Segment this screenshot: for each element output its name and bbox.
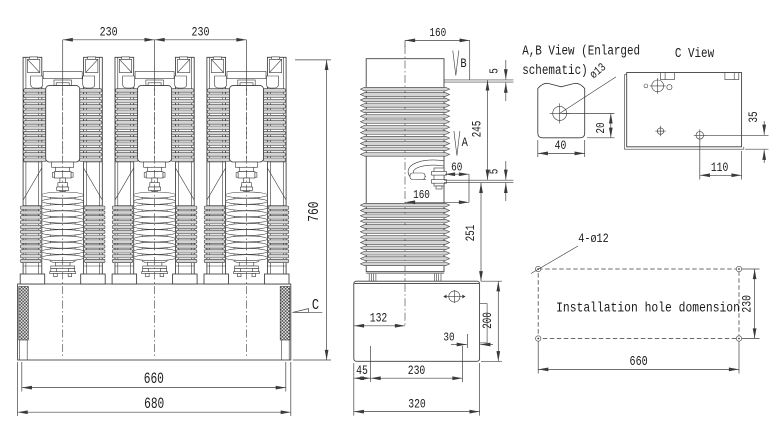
svg-text:660: 660 xyxy=(630,354,648,370)
view arrow B xyxy=(453,51,456,76)
dimension 160 top xyxy=(405,39,470,41)
left foot bolts xyxy=(368,274,370,282)
dimension 230 pole spacing right xyxy=(155,39,247,41)
base left hatched gusset xyxy=(19,287,29,341)
dimension 660 install xyxy=(537,341,539,374)
svg-text:60: 60 xyxy=(451,161,462,174)
dimension 680 base width xyxy=(17,362,19,416)
pole 1 centerline xyxy=(62,83,64,357)
dimension 760 overall height xyxy=(295,59,331,61)
base right hatched gusset xyxy=(280,287,290,341)
upper terminal plate xyxy=(444,79,513,81)
dimension 40 xyxy=(537,140,539,157)
section C callout xyxy=(292,311,322,313)
svg-text:4-ø12: 4-ø12 xyxy=(578,232,608,246)
C view plate outline xyxy=(627,73,742,147)
svg-text:230: 230 xyxy=(740,295,755,313)
svg-text:C: C xyxy=(312,298,319,315)
box centerline continuation xyxy=(404,284,406,326)
svg-text:760: 760 xyxy=(306,201,323,221)
C view hole H1a xyxy=(644,84,648,88)
mechanism box side view xyxy=(354,281,480,361)
dimension 45 and 230 bottom xyxy=(370,346,372,382)
pole 1 assembly xyxy=(20,57,105,284)
pole 2 assembly xyxy=(112,57,197,284)
dimension 20 xyxy=(562,112,615,114)
dimension 200 xyxy=(481,280,502,282)
mounting hole BL xyxy=(536,336,541,341)
lifting hole target symbol xyxy=(449,291,460,302)
right foot bolts xyxy=(433,274,435,282)
svg-text:320: 320 xyxy=(408,398,426,411)
svg-text:20: 20 xyxy=(595,122,608,133)
C view hole H2 xyxy=(657,128,663,134)
dimension 60 xyxy=(445,173,469,175)
C view top notch right xyxy=(725,73,739,80)
installation hole layout dashed outline xyxy=(538,269,739,339)
dimension 160 lower xyxy=(405,201,469,203)
svg-text:160: 160 xyxy=(429,27,446,40)
C view hole H1b xyxy=(667,85,672,90)
dimension 5 upper plate xyxy=(505,60,507,79)
svg-text:132: 132 xyxy=(370,312,388,325)
side view pole column xyxy=(366,59,444,272)
lower hook terminal xyxy=(408,160,444,179)
pad hole xyxy=(553,106,567,120)
dimension 5 lower plate xyxy=(505,161,507,180)
C view hole H3 xyxy=(696,132,704,140)
pole 3 centerline xyxy=(246,83,248,357)
svg-text:160: 160 xyxy=(413,189,430,202)
dimension 251 xyxy=(480,183,482,281)
dimension 35 xyxy=(704,134,769,136)
svg-text:680: 680 xyxy=(144,396,164,413)
svg-text:schematic): schematic) xyxy=(522,63,587,79)
svg-text:30: 30 xyxy=(443,332,454,345)
lower terminal plate xyxy=(444,179,513,181)
hole callout 4-o12 xyxy=(531,246,578,274)
dimension 30 xyxy=(467,334,469,348)
base left foot channel xyxy=(19,340,21,360)
svg-text:110: 110 xyxy=(711,162,729,175)
mounting hole TR xyxy=(736,266,741,271)
base right foot channel xyxy=(281,340,283,360)
hole leader and label xyxy=(560,77,616,114)
dimension 132 xyxy=(354,325,405,327)
C view hole H1 xyxy=(652,80,664,92)
dimension 320 xyxy=(353,363,355,416)
dimension 245 xyxy=(487,80,489,179)
box side tab xyxy=(480,304,488,343)
svg-text:35: 35 xyxy=(748,111,762,122)
svg-text:5: 5 xyxy=(489,169,502,175)
svg-text:A: A xyxy=(462,135,469,150)
dimension 230 pole spacing left xyxy=(63,39,155,41)
svg-text:40: 40 xyxy=(555,140,567,153)
svg-text:660: 660 xyxy=(144,372,164,389)
view arrow A xyxy=(454,131,457,156)
svg-text:230: 230 xyxy=(408,365,426,378)
dimension 660 base holes xyxy=(21,362,23,392)
svg-text:Installation hole domension: Installation hole domension xyxy=(556,299,740,316)
pole 2 centerline xyxy=(154,83,156,357)
svg-text:5: 5 xyxy=(489,68,502,74)
dimension 230 install xyxy=(742,268,760,270)
A,B terminal pad plate xyxy=(538,83,585,137)
dimension 110 xyxy=(699,139,701,180)
lower rib bellows xyxy=(360,203,449,207)
pole 3 assembly xyxy=(204,57,289,284)
svg-text:C View: C View xyxy=(675,46,715,62)
C view top notch left xyxy=(661,73,675,80)
mounting hole TL xyxy=(536,266,541,271)
upper rib bellows xyxy=(360,87,449,91)
svg-text:45: 45 xyxy=(356,365,368,378)
svg-text:B: B xyxy=(460,56,466,71)
svg-text:A,B View (Enlarged: A,B View (Enlarged xyxy=(522,43,640,59)
svg-text:251: 251 xyxy=(465,224,479,241)
svg-text:200: 200 xyxy=(482,312,496,329)
mounting hole BR xyxy=(736,336,741,341)
base frame front view xyxy=(18,284,291,360)
side view centerline xyxy=(404,46,406,326)
svg-text:245: 245 xyxy=(471,121,485,138)
svg-text:230: 230 xyxy=(100,26,118,39)
column flange xyxy=(366,271,444,273)
svg-text:230: 230 xyxy=(192,26,210,39)
